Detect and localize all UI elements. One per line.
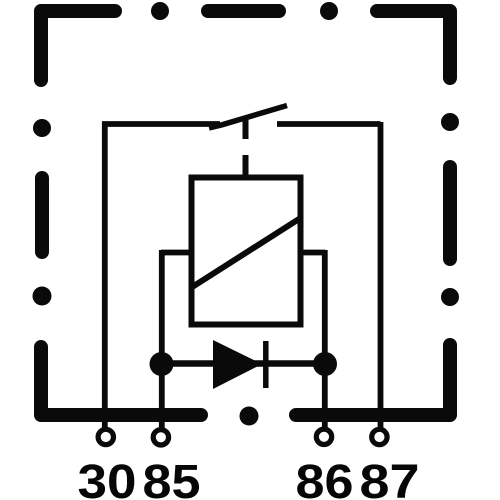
diode V1 cathode bar — [263, 341, 269, 388]
terminal 86 ring — [316, 429, 331, 444]
wire: top right segment (switch contact to right corner) — [277, 121, 381, 127]
svg-text:87: 87 — [360, 456, 420, 500]
relay body outline: left dash — [35, 178, 49, 252]
wire: terminal 85 riser — [159, 250, 165, 430]
relay body outline: bottom dot — [240, 407, 259, 426]
junction node 85 — [150, 352, 174, 376]
relay body outline: top dash — [208, 4, 279, 18]
wire: right vertical (terminal 87 riser) — [378, 122, 384, 430]
terminal 30 ring — [98, 429, 113, 444]
svg-text:30: 30 — [78, 456, 137, 500]
relay body outline: right dash — [443, 167, 457, 259]
wire: coil left stub — [161, 250, 194, 256]
relay body outline: bottom-right corner dash — [296, 345, 450, 415]
relay body outline: left dot 2 — [33, 287, 52, 306]
relay coil K1 (box) — [192, 178, 301, 325]
wire: diode row (node 85 to node 86) — [161, 360, 325, 367]
actuator dashed link (switch to coil) — [243, 117, 249, 178]
terminal 87 ring — [372, 429, 387, 444]
relay body outline: left dot 1 — [33, 119, 51, 137]
terminal 85 ring — [153, 430, 168, 445]
wire: top left segment (terminal 30 to switch pivot) — [102, 121, 220, 127]
wire: terminal 86 riser — [322, 250, 328, 430]
junction node 86 — [313, 352, 337, 376]
relay body outline: bottom-left corner dash — [41, 347, 201, 415]
relay body outline: top-left corner dash — [41, 11, 115, 80]
diode V1 anode triangle — [213, 340, 262, 389]
svg-text:85: 85 — [143, 456, 201, 500]
wire: coil right stub — [298, 250, 325, 256]
relay body outline: top dot 1 — [151, 2, 169, 20]
relay body outline: top dot 2 — [320, 2, 338, 20]
relay body outline: top-right corner dash — [377, 11, 450, 78]
svg-text:86: 86 — [296, 456, 354, 500]
wire: left vertical (terminal 30 riser) — [102, 122, 108, 430]
switch blade — [209, 106, 287, 129]
relay coil diagonal — [193, 218, 301, 287]
relay body outline: right dot 2 — [441, 288, 459, 306]
relay body outline: right dot 1 — [441, 113, 459, 131]
